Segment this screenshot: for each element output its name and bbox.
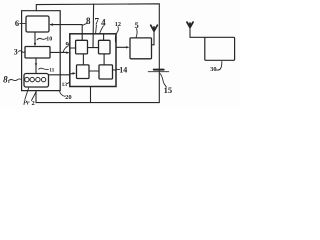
svg-text:9: 9 (65, 41, 69, 49)
svg-text:14: 14 (119, 66, 127, 75)
svg-text:13: 13 (62, 82, 68, 88)
svg-text:20: 20 (65, 94, 72, 101)
svg-text:15: 15 (164, 85, 173, 95)
svg-text:8: 8 (86, 16, 91, 26)
svg-text:11: 11 (49, 68, 54, 74)
svg-text:30: 30 (210, 66, 216, 73)
svg-text:12: 12 (115, 21, 121, 28)
svg-text:6: 6 (15, 18, 19, 28)
svg-text:4: 4 (101, 17, 106, 27)
svg-text:2: 2 (31, 100, 34, 107)
svg-text:7: 7 (95, 17, 100, 27)
svg-text:5: 5 (134, 20, 138, 30)
svg-text:Pr: Pr (23, 99, 30, 106)
svg-text:3: 3 (14, 48, 18, 57)
svg-text:10: 10 (46, 37, 52, 43)
